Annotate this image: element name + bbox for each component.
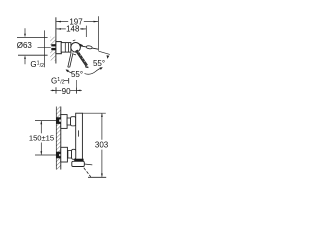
- upper supply axis line: [35, 120, 56, 122]
- dia 63 dimension arrow upper: [24, 28, 26, 37]
- dia 63 dimension arrow lower: [24, 55, 26, 64]
- shower hose outlet nipple below ball (thin outline): [68, 53, 73, 68]
- extension line for 148: [85, 26, 87, 37]
- wall section hatch lower (side view): [50, 51, 56, 61]
- svg-text:148: 148: [66, 25, 80, 34]
- mixer body column (front view): [76, 113, 83, 161]
- vertical reference line at G1/2 connection: [43, 30, 45, 67]
- label 303: [95, 141, 109, 150]
- dimension 90 line with outside arrows and extension bars: [51, 80, 82, 94]
- dimension 303 line with arrows: [101, 113, 103, 177]
- body axis centerline: [38, 46, 51, 48]
- svg-text:150±15: 150±15: [29, 133, 54, 142]
- lower union escutcheon and nut: [61, 147, 76, 162]
- wall surface line / left extension line: [55, 17, 57, 63]
- hose outlet elbow (dark): [74, 159, 83, 162]
- lower fitting inside wall (section): [56, 152, 61, 159]
- dia 63 extension line bottom: [18, 54, 48, 56]
- dimension 150 plus-minus 15 line with arrows: [40, 121, 42, 155]
- label dia 63: [17, 41, 33, 50]
- swing arc left segment with arrow: [66, 69, 72, 73]
- label 55 deg lower: [71, 70, 83, 79]
- cartridge ball housing: [71, 40, 81, 55]
- wall section hatch upper (side view): [50, 37, 56, 46]
- label 148: [66, 25, 80, 34]
- dimension 148 line with arrows: [56, 28, 86, 30]
- dia 63 extension line top: [17, 36, 48, 38]
- upper union escutcheon and nut: [61, 115, 76, 129]
- label 55 deg upper: [93, 59, 105, 68]
- svg-text:55°: 55°: [71, 70, 83, 79]
- label G 1/2 upper left: [30, 60, 44, 69]
- label G 1/2 at hose outlet: [51, 76, 65, 85]
- lever handle horizontal position (thin outline): [79, 44, 98, 49]
- label 150 plus-minus 15: [29, 133, 54, 142]
- leader with arrow for upper 55 deg: [99, 51, 110, 59]
- extension line for 303 bottom: [88, 176, 106, 178]
- lower supply axis line: [35, 154, 56, 156]
- svg-text:Ø63: Ø63: [17, 41, 33, 50]
- wall section hatch band (front view): [56, 107, 61, 170]
- svg-text:55°: 55°: [93, 59, 105, 68]
- S-union fitting inside wall (section, side view): [51, 44, 56, 50]
- label 197: [69, 17, 83, 26]
- label 90: [62, 87, 71, 96]
- leader for lower G1/2 label: [64, 78, 69, 84]
- swing arc right segment with arrow: [85, 67, 103, 74]
- dimension 197 line with arrows: [56, 21, 98, 23]
- extension line for 197 down to lever tip: [97, 16, 99, 51]
- svg-text:90: 90: [62, 87, 71, 96]
- shower hose dashes: [84, 168, 91, 177]
- extension line for 303 top: [82, 112, 105, 114]
- escutcheon rosette (side view): [56, 42, 61, 54]
- svg-text:303: 303: [95, 141, 109, 150]
- lever handle swung down 55 deg (hatched): [75, 50, 88, 68]
- upper fitting inside wall (section): [56, 117, 61, 124]
- mixer body cylinder (side view): [61, 43, 71, 53]
- hose union nut: [72, 161, 93, 166]
